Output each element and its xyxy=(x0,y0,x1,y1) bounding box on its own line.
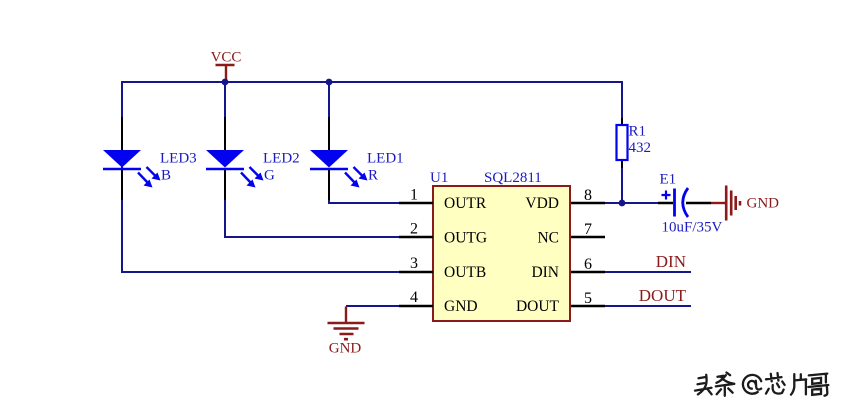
svg-text:GND: GND xyxy=(444,298,478,315)
svg-text:DIN: DIN xyxy=(656,252,686,271)
ground GND bottom xyxy=(328,307,365,357)
svg-text:10uF/35V: 10uF/35V xyxy=(662,220,723,236)
svg-text:E1: E1 xyxy=(660,172,677,188)
watermark 头条@芯片哥 xyxy=(695,373,828,396)
node junction LED1 on rail xyxy=(326,79,333,86)
svg-text:B: B xyxy=(161,168,171,184)
wire LED3 to pin3 xyxy=(122,200,399,272)
svg-text:LED1: LED1 xyxy=(367,150,404,166)
resistor R1 xyxy=(617,125,628,160)
svg-text:5: 5 xyxy=(584,290,592,307)
node junction VCC/LED2 on rail xyxy=(222,79,229,86)
LED1 pins xyxy=(328,117,330,201)
pin 7 stub xyxy=(571,236,605,238)
svg-text:G: G xyxy=(264,168,275,184)
svg-text:NC: NC xyxy=(537,230,559,247)
wire rail to LED2 xyxy=(224,82,226,118)
svg-text:R1: R1 xyxy=(629,124,647,140)
wire DOUT net xyxy=(605,305,691,307)
svg-text:LED3: LED3 xyxy=(160,150,197,166)
svg-text:OUTB: OUTB xyxy=(444,264,486,281)
wire R1 bottom xyxy=(621,168,623,203)
pin 5 stub xyxy=(571,305,605,307)
svg-text:3: 3 xyxy=(410,255,418,272)
pin 6 stub xyxy=(571,271,605,273)
svg-text:1: 1 xyxy=(410,187,418,204)
ground GND right xyxy=(711,186,779,221)
svg-text:DOUT: DOUT xyxy=(639,286,687,305)
pin 2 stub xyxy=(399,236,433,238)
wire DIN net xyxy=(605,271,691,273)
svg-text:OUTG: OUTG xyxy=(444,230,487,247)
LED3 pins xyxy=(121,117,123,201)
svg-text:8: 8 xyxy=(584,187,592,204)
pin 8 stub xyxy=(571,202,605,204)
capacitor E1 pins xyxy=(658,202,711,204)
wire rail to LED1 xyxy=(328,82,330,118)
wire LED2 to pin2 xyxy=(225,200,399,237)
svg-text:VDD: VDD xyxy=(525,195,559,212)
power symbol VCC xyxy=(211,50,242,83)
svg-text:DIN: DIN xyxy=(531,264,559,281)
pin 1 stub xyxy=(399,202,433,204)
svg-text:DOUT: DOUT xyxy=(516,298,560,315)
resistor R1 pins xyxy=(621,118,623,168)
svg-text:U1: U1 xyxy=(430,170,448,186)
svg-text:GND: GND xyxy=(747,196,780,212)
pin 4 stub xyxy=(399,305,433,307)
svg-text:7: 7 xyxy=(584,221,592,238)
IC U1 SQL2811 body xyxy=(433,186,570,321)
LED2 pins xyxy=(224,117,226,201)
wire pin4 to ground xyxy=(346,305,399,307)
svg-text:432: 432 xyxy=(629,140,652,156)
svg-text:6: 6 xyxy=(584,256,592,273)
node junction pin8/R1 xyxy=(619,200,626,207)
LED D1 symbol xyxy=(310,150,368,188)
LED D2 symbol xyxy=(206,150,264,188)
svg-text:R: R xyxy=(368,168,378,184)
pin 3 stub xyxy=(399,271,433,273)
svg-text:VCC: VCC xyxy=(211,50,242,66)
svg-text:GND: GND xyxy=(329,341,362,357)
wire LED1 to pin1 xyxy=(329,200,399,203)
capacitor E1 xyxy=(662,188,689,217)
LED D3 symbol xyxy=(103,150,161,188)
svg-text:2: 2 xyxy=(410,221,418,238)
svg-text:4: 4 xyxy=(410,289,418,306)
wire pin8 net xyxy=(605,202,658,204)
svg-text:OUTR: OUTR xyxy=(444,195,487,212)
svg-text:LED2: LED2 xyxy=(263,150,300,166)
wire top VCC rail xyxy=(122,82,622,272)
svg-text:SQL2811: SQL2811 xyxy=(484,170,542,186)
